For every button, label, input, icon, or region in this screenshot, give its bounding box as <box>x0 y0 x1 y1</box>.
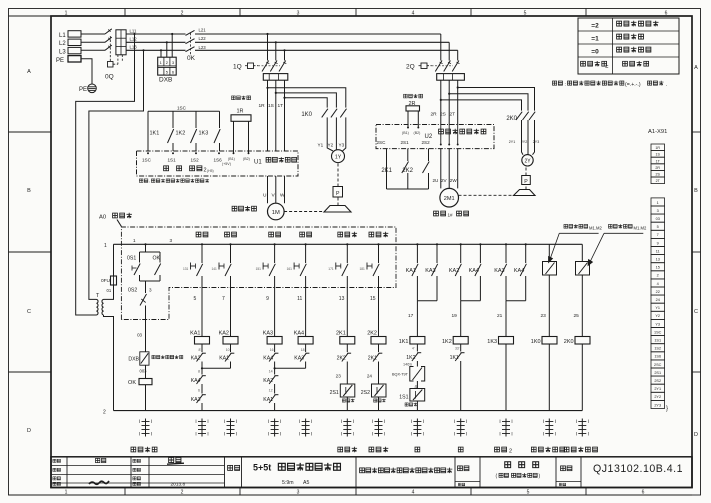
pushbutton column KA2 header <box>225 232 230 237</box>
wire U V W to motor 1M <box>267 176 269 203</box>
svg-text:2Y2: 2Y2 <box>654 395 661 399</box>
title block <box>51 457 692 488</box>
svg-text:131: 131 <box>183 267 189 271</box>
svg-text:1S2: 1S2 <box>654 347 661 351</box>
brake motor 2Y <box>522 147 524 155</box>
svg-text:2S1: 2S1 <box>654 371 661 375</box>
wire transformer secondary bottom to control line 2 <box>104 315 114 411</box>
svg-text:1S1: 1S1 <box>168 158 177 163</box>
svg-text:2K1: 2K1 <box>381 168 392 174</box>
svg-text:7: 7 <box>657 233 659 237</box>
pushbutton 9 column wire <box>274 243 276 245</box>
svg-text:L12: L12 <box>130 37 138 42</box>
svg-text:2S1: 2S1 <box>330 390 339 396</box>
svg-text:P: P <box>524 179 528 185</box>
bus line L12/L22 <box>126 41 449 43</box>
contactor 0K main contacts <box>186 33 196 35</box>
note 注:图中未注项目代号前缀符号均省略 <box>553 81 557 85</box>
svg-text:}: } <box>666 406 668 412</box>
svg-text:DXB: DXB <box>159 77 172 84</box>
wire fuse to control line 1 <box>113 244 115 276</box>
svg-text:KA4: KA4 <box>294 330 304 336</box>
svg-text:23: 23 <box>541 313 547 319</box>
svg-text:2S2: 2S2 <box>422 140 431 145</box>
control line 2 <box>114 410 583 412</box>
brake shoe travel <box>514 190 536 196</box>
inverter U1 enclosure <box>137 151 299 176</box>
svg-text:2W: 2W <box>450 178 458 183</box>
svg-text:1R: 1R <box>655 146 660 150</box>
upper limit switch 1S1 <box>416 381 418 389</box>
title block drawing name 电路图 <box>505 462 511 468</box>
pushbutton column 2K2 header <box>369 232 374 237</box>
junction columns KA3 KA4 <box>274 362 276 369</box>
svg-text:Y2: Y2 <box>328 143 334 148</box>
svg-text:Y3: Y3 <box>655 322 660 326</box>
pushbutton 5 column wire <box>201 243 203 245</box>
svg-text:L3: L3 <box>59 49 66 55</box>
connector symbol <box>145 419 147 437</box>
svg-text:1K0: 1K0 <box>301 112 312 118</box>
breaker 2Q thermal terminal block <box>437 74 465 81</box>
load limiter BQX-T9T contact <box>416 361 418 367</box>
svg-text:2S2: 2S2 <box>361 390 370 396</box>
svg-text:2S1: 2S1 <box>401 140 410 145</box>
interlock KA3 under KA1 chain <box>201 384 203 394</box>
connector symbol <box>230 419 232 437</box>
svg-text:2SC: 2SC <box>654 363 662 367</box>
wire 1R <box>267 80 269 151</box>
relay contact pair KA2 KA4 <box>460 243 462 245</box>
breaker 2Q feeders from bus <box>440 34 442 61</box>
svg-text:2SC: 2SC <box>377 140 387 145</box>
svg-text:2Y1: 2Y1 <box>654 387 661 391</box>
svg-text:(B1): (B1) <box>228 157 235 161</box>
svg-text:2Y3: 2Y3 <box>654 403 661 407</box>
svg-text:1K2: 1K2 <box>406 355 415 361</box>
svg-text:1K1: 1K1 <box>450 355 459 361</box>
svg-text:2K1: 2K1 <box>336 330 346 336</box>
pushbutton 11 column wire <box>305 243 307 245</box>
pushbutton 15 column wire <box>377 243 379 245</box>
bottom label 降 <box>458 447 463 452</box>
svg-text:(+5V): (+5V) <box>222 162 231 166</box>
bus line L11/L21 <box>126 33 441 35</box>
svg-text:A0: A0 <box>99 215 106 221</box>
svg-text:D: D <box>694 432 698 438</box>
svg-text:1K0: 1K0 <box>531 339 541 345</box>
inverter fault contact hoist <box>548 244 550 261</box>
wire taps to contactor 2K0 <box>457 86 459 88</box>
table row 高层代号= 项目内容 <box>581 61 586 66</box>
connector symbol <box>548 419 550 437</box>
svg-text:B: B <box>694 188 698 194</box>
svg-text:1SC: 1SC <box>177 105 187 110</box>
terminal strip A1-X91 power group <box>651 144 665 151</box>
limit switch 2S2 <box>372 384 387 397</box>
svg-text:1K2: 1K2 <box>442 339 452 345</box>
pushbutton column KA1 header <box>196 232 201 237</box>
speed select contacts 2K1 2K2 below U2 <box>386 149 388 189</box>
svg-text:KA4: KA4 <box>263 355 273 361</box>
zone column ticks bottom <box>124 488 126 496</box>
svg-text:2Y: 2Y <box>524 159 531 165</box>
svg-text:10: 10 <box>226 348 230 352</box>
wire PE to earth <box>81 59 92 84</box>
svg-text:01: 01 <box>107 288 112 293</box>
svg-text:A: A <box>27 69 31 75</box>
svg-text:23: 23 <box>336 374 342 379</box>
bottom label 行走制动器 <box>564 447 569 452</box>
connector symbol <box>460 419 462 437</box>
svg-text:(B2): (B2) <box>414 131 421 135</box>
fuse 0FU <box>111 276 117 285</box>
wire to 0S2 <box>145 281 147 293</box>
svg-text:11: 11 <box>656 249 660 253</box>
svg-text:2Q: 2Q <box>406 64 415 71</box>
svg-text:(B2): (B2) <box>243 157 250 161</box>
svg-text:1: 1 <box>104 243 107 249</box>
breaker 1Q poles <box>262 61 269 72</box>
svg-text:2K2: 2K2 <box>367 330 377 336</box>
svg-text:03: 03 <box>656 217 660 221</box>
svg-text:1S2: 1S2 <box>191 158 200 163</box>
svg-text:D: D <box>27 428 31 434</box>
connector symbol <box>305 419 307 437</box>
svg-text:C: C <box>694 309 698 315</box>
svg-text:M1.M2: M1.M2 <box>634 225 647 230</box>
svg-text:KA2: KA2 <box>219 330 229 336</box>
leader label 大车变频器M1.M2 <box>608 224 612 228</box>
brake linkage travel <box>459 194 514 196</box>
brake release P hoist <box>337 197 339 206</box>
svg-text:KA2: KA2 <box>191 355 201 361</box>
svg-text:0K: 0K <box>187 55 196 62</box>
connector symbol <box>201 419 203 437</box>
svg-text:2: 2 <box>181 490 184 496</box>
svg-text:U1: U1 <box>254 160 262 166</box>
svg-text:OK: OK <box>128 380 136 386</box>
title block tiny row labels <box>53 459 56 462</box>
brake linkage hoist <box>284 211 324 213</box>
svg-text:W: W <box>280 192 285 198</box>
hoist motor 1M <box>268 203 285 220</box>
svg-text:KA1: KA1 <box>263 397 273 403</box>
title block signature name <box>169 457 181 462</box>
interlock 2K2 under 2K1 <box>342 353 348 361</box>
wire tap L13 to transformer primary <box>142 49 144 51</box>
svg-text:L21: L21 <box>199 28 207 33</box>
svg-text:2: 2 <box>103 409 106 415</box>
svg-text:1K1: 1K1 <box>150 131 160 137</box>
svg-text:L22: L22 <box>199 36 207 41</box>
svg-text:3: 3 <box>297 490 300 496</box>
svg-text:13: 13 <box>656 258 660 262</box>
svg-text:12: 12 <box>269 389 273 393</box>
wire L11 to DXB pin3 <box>171 33 173 35</box>
pushbutton 7 column wire <box>229 243 231 245</box>
breaker 2Q operator <box>421 63 427 69</box>
breaker 1Q taps from bus <box>266 33 268 35</box>
svg-text:16: 16 <box>270 348 274 352</box>
inverter U2 enclosure <box>376 125 494 149</box>
svg-text:2K2: 2K2 <box>337 355 346 361</box>
wire 1T <box>284 80 286 151</box>
svg-text:KA3: KA3 <box>191 397 201 403</box>
svg-text:9: 9 <box>266 296 269 302</box>
svg-text:KA2: KA2 <box>263 378 273 384</box>
svg-text:0S1: 0S1 <box>127 256 136 262</box>
svg-text:1K1: 1K1 <box>399 339 409 345</box>
svg-text:B: B <box>27 188 31 194</box>
svg-text:5: 5 <box>524 10 527 16</box>
svg-text:2: 2 <box>509 449 512 455</box>
pushbutton 13 column wire <box>346 243 348 245</box>
bottom label 速度2 <box>495 447 500 452</box>
connector symbol <box>274 419 276 437</box>
svg-text:U: U <box>263 192 267 198</box>
pendant station A0 enclosure dashed <box>121 227 396 320</box>
svg-text:(H5): (H5) <box>207 169 214 173</box>
earth electrode PE <box>88 84 97 93</box>
svg-text:5:9m: 5:9m <box>282 480 294 486</box>
svg-text:19: 19 <box>452 313 458 319</box>
terminal block DXB <box>158 57 177 75</box>
terminal strip A1-X91 control group <box>651 198 665 206</box>
svg-text:2: 2 <box>181 10 184 16</box>
svg-text:24: 24 <box>656 298 660 302</box>
svg-text:0S2: 0S2 <box>128 288 137 294</box>
svg-text:9: 9 <box>657 241 659 245</box>
bottom label 升 <box>415 447 420 452</box>
braking resistor 2R <box>404 94 408 98</box>
svg-text:1SC: 1SC <box>654 330 662 334</box>
pushbutton column KA4 header <box>300 232 305 237</box>
svg-text:2K2: 2K2 <box>402 168 413 174</box>
svg-text:2K0: 2K0 <box>564 339 574 345</box>
svg-text:11: 11 <box>297 296 302 302</box>
project code table <box>578 18 679 74</box>
svg-text:2R: 2R <box>431 111 438 117</box>
pushbutton column KA3 header <box>269 232 274 237</box>
svg-text:L2: L2 <box>59 41 66 47</box>
brake motor 1Y <box>327 140 333 152</box>
svg-text:PE: PE <box>79 87 87 93</box>
wire 2R <box>440 80 442 124</box>
svg-text:Y1: Y1 <box>318 143 324 148</box>
svg-text:1: 1 <box>133 238 136 243</box>
svg-text:0FU: 0FU <box>101 278 111 284</box>
limit switch 2S1 <box>340 384 355 397</box>
svg-text:KA1: KA1 <box>190 330 200 336</box>
zone row ticks right <box>692 131 701 133</box>
breaker 1Q operator <box>248 63 254 69</box>
svg-text:1S1: 1S1 <box>399 394 408 400</box>
wire 2U 2V 2W to motor 2M1 <box>440 149 442 189</box>
svg-text::: : <box>565 82 566 88</box>
svg-text:M1.M2: M1.M2 <box>589 225 602 230</box>
svg-text:1S6: 1S6 <box>654 355 661 359</box>
svg-text:2S2: 2S2 <box>654 379 661 383</box>
svg-text:22: 22 <box>656 290 660 294</box>
svg-text:14: 14 <box>269 369 273 373</box>
inverter U1 function text 升降 速度2 <box>164 166 169 171</box>
svg-text:3: 3 <box>149 288 152 293</box>
svg-text::: : <box>149 179 150 184</box>
svg-text:1#: 1# <box>448 213 454 218</box>
svg-text:15: 15 <box>656 266 660 270</box>
svg-text:2Y1: 2Y1 <box>509 140 515 144</box>
svg-text:171: 171 <box>328 267 334 271</box>
svg-text:KA1: KA1 <box>219 355 229 361</box>
svg-text:24: 24 <box>367 374 373 379</box>
svg-text:2: 2 <box>657 274 659 278</box>
svg-text:1: 1 <box>65 10 68 16</box>
svg-text:8': 8' <box>198 348 201 352</box>
svg-text:6: 6 <box>665 10 668 16</box>
brake shoe hoist <box>324 206 351 213</box>
svg-text:5+5t: 5+5t <box>253 463 271 473</box>
svg-text:1S1: 1S1 <box>654 339 661 343</box>
connector symbol <box>581 419 583 437</box>
svg-text:03: 03 <box>137 333 142 338</box>
breaker 1Q thermal terminal block <box>263 74 288 81</box>
svg-text:KA3: KA3 <box>263 330 273 336</box>
svg-text:1Y: 1Y <box>335 154 342 160</box>
svg-text:2M1: 2M1 <box>444 196 455 202</box>
svg-text:L1: L1 <box>59 33 66 39</box>
svg-text:=: = <box>605 64 609 70</box>
leader label 起升变频器M1.M2 <box>564 224 568 228</box>
svg-text:3: 3 <box>657 209 659 213</box>
svg-text:1R: 1R <box>237 108 244 114</box>
svg-text:2T: 2T <box>450 111 456 117</box>
svg-text:161: 161 <box>287 267 293 271</box>
svg-text:L11: L11 <box>130 28 137 33</box>
svg-text:=1: =1 <box>591 35 599 42</box>
bottom label 升降制动器 <box>531 447 536 452</box>
interlock 2K1 under 2K2 <box>373 353 379 361</box>
svg-text:003: 003 <box>140 369 148 374</box>
svg-text:2K1: 2K1 <box>368 355 377 361</box>
connector symbol <box>346 419 348 437</box>
svg-text:(B1): (B1) <box>402 131 409 135</box>
svg-text:2V: 2V <box>441 178 448 183</box>
svg-text:33': 33' <box>455 347 460 351</box>
relay contact pair KA1 KA3 <box>416 243 418 245</box>
connector symbol <box>378 419 380 437</box>
svg-text:PE: PE <box>56 58 64 64</box>
svg-text:2U: 2U <box>433 178 439 183</box>
bus line L13/L23 <box>126 49 458 51</box>
svg-text:4': 4' <box>412 347 415 351</box>
svg-text:L13: L13 <box>130 45 138 50</box>
svg-text:P: P <box>336 191 340 197</box>
svg-text:A: A <box>694 65 698 71</box>
svg-text:15: 15 <box>370 296 376 302</box>
braking resistor 1R <box>232 96 236 100</box>
svg-text:2Y3: 2Y3 <box>533 140 539 144</box>
wire L3 to 0Q <box>81 49 105 51</box>
svg-text:KA3: KA3 <box>294 355 304 361</box>
svg-text:1: 1 <box>65 490 68 496</box>
svg-text:3: 3 <box>297 10 300 16</box>
svg-text:DXB: DXB <box>128 357 139 363</box>
switch 0Q operator <box>108 62 114 68</box>
wire transformer secondary top to fuse <box>104 285 114 299</box>
wire L1 to 0Q <box>81 33 105 35</box>
bottom label 总接触器 <box>131 447 136 452</box>
svg-text:1: 1 <box>657 201 659 205</box>
junction columns KA1 KA2 <box>201 362 203 369</box>
control line 1 <box>114 243 583 245</box>
wire 1SC riser <box>147 111 149 151</box>
travel motor 2M1 <box>440 188 459 207</box>
inverter U2 aux terminals B1 B2 <box>407 127 409 129</box>
wire L2 to 0Q <box>81 41 105 43</box>
svg-text:1S: 1S <box>268 103 274 109</box>
svg-text:1K3: 1K3 <box>487 339 497 345</box>
switch 0Q terminal block <box>116 30 126 55</box>
svg-text:25: 25 <box>574 313 580 319</box>
inverter U1 terminals <box>147 152 149 154</box>
svg-text:1T: 1T <box>278 103 284 109</box>
svg-text:4: 4 <box>657 282 659 286</box>
wire taps to contactor 1K0 <box>266 87 268 89</box>
svg-text:141: 141 <box>212 267 218 271</box>
inverter U2 phase terminals <box>440 144 442 146</box>
title block company 常州市振华起重运输机械有限公司 <box>360 468 365 473</box>
interlock KA4 under KA1 chain <box>201 368 203 374</box>
bottom label 大车左 <box>338 447 343 452</box>
svg-text:BQX-T9T: BQX-T9T <box>392 372 409 376</box>
wire 2S <box>448 80 450 124</box>
zone column ticks top <box>124 9 126 17</box>
interlock KA1 under KA3 chain <box>274 384 276 394</box>
svg-text:146S: 146S <box>403 362 412 366</box>
svg-text:1Q: 1Q <box>233 64 242 71</box>
svg-text:5: 5 <box>194 296 197 302</box>
svg-text:2K0: 2K0 <box>506 116 517 122</box>
svg-text:6: 6 <box>198 389 200 393</box>
svg-text:Y3: Y3 <box>339 143 345 148</box>
svg-text:QJ13102.10B.4.1: QJ13102.10B.4.1 <box>593 463 683 475</box>
connector symbol <box>416 419 418 437</box>
svg-text:7: 7 <box>222 296 225 302</box>
title block cell 图号 <box>561 466 566 471</box>
svg-text:1SC: 1SC <box>142 158 152 163</box>
svg-text:151: 151 <box>256 267 262 271</box>
brake release P travel <box>525 185 527 190</box>
zone row ticks left <box>9 131 52 133</box>
bottom label 大车右 <box>369 447 374 452</box>
wire 2T <box>457 80 459 124</box>
svg-text:C: C <box>27 309 31 315</box>
svg-text:1S6: 1S6 <box>214 158 223 163</box>
svg-text:2S: 2S <box>440 111 446 117</box>
svg-text:=0: =0 <box>591 48 599 55</box>
svg-text:Y2: Y2 <box>655 314 660 318</box>
svg-text:4: 4 <box>412 10 415 16</box>
switch 0Q poles <box>105 29 112 34</box>
svg-text:18: 18 <box>301 348 305 352</box>
svg-text:2013.8: 2013.8 <box>171 481 186 487</box>
svg-text:L23: L23 <box>199 45 207 50</box>
title block cell 名称 <box>458 466 463 471</box>
svg-text:1K3: 1K3 <box>199 131 209 137</box>
svg-text:KA4: KA4 <box>191 378 201 384</box>
svg-text:8: 8 <box>198 369 200 373</box>
